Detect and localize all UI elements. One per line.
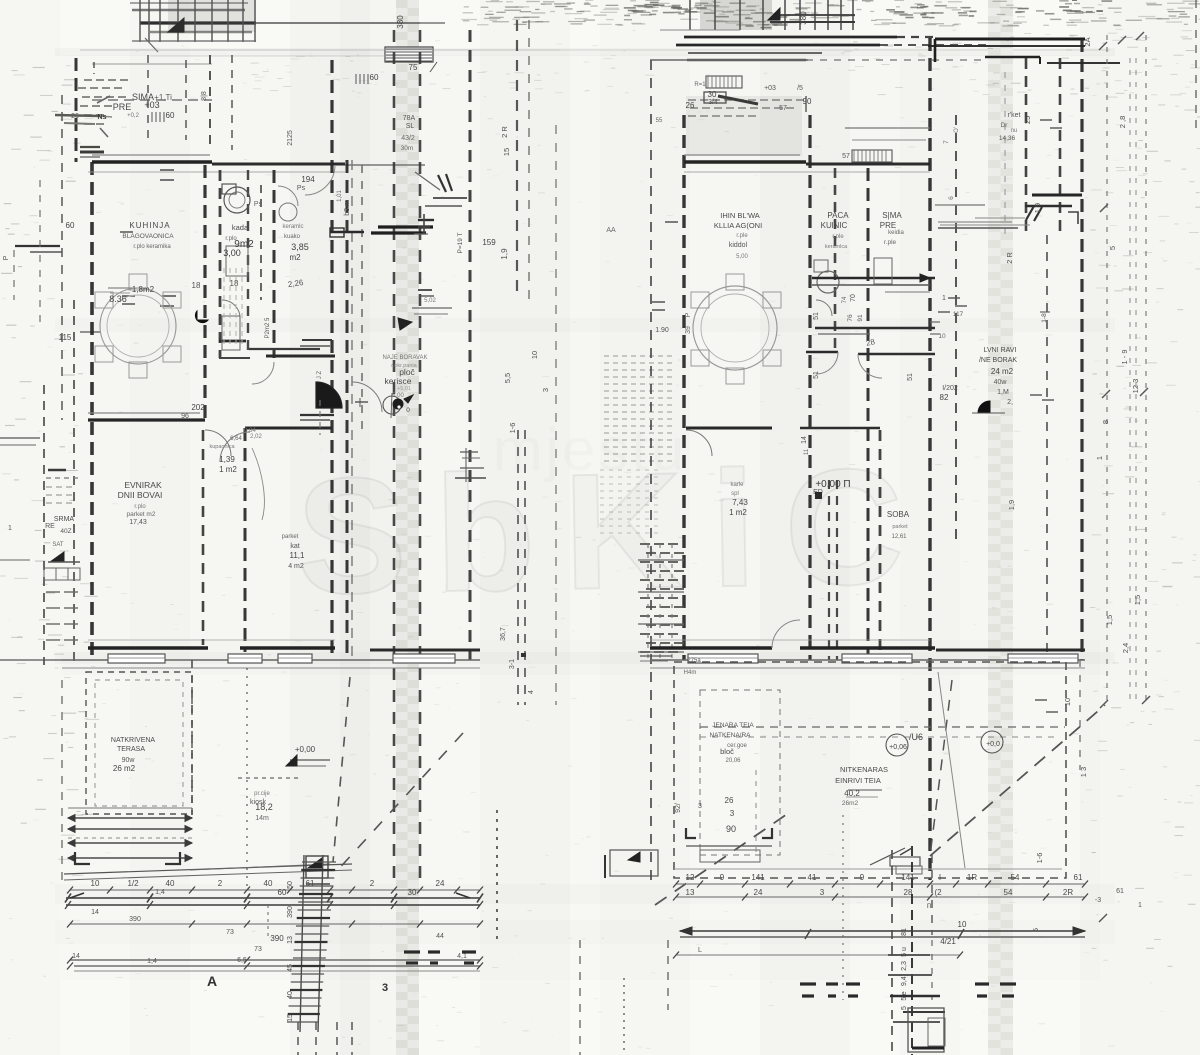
svg-text:24: 24: [754, 888, 763, 897]
svg-text:40w: 40w: [994, 379, 1008, 386]
svg-text:12 3: 12 3: [1131, 379, 1140, 394]
svg-text:1/2: 1/2: [127, 879, 139, 888]
svg-text:mjestu: mjestu: [493, 416, 688, 483]
svg-text:1,8m2: 1,8m2: [132, 285, 155, 294]
svg-text:24 m2: 24 m2: [991, 367, 1014, 376]
svg-text:40: 40: [264, 879, 273, 888]
svg-text:kuako: kuako: [284, 234, 301, 240]
svg-text:+03: +03: [764, 85, 776, 92]
svg-text:15: 15: [287, 1014, 294, 1022]
svg-text:117: 117: [953, 311, 964, 318]
svg-text:73: 73: [226, 929, 234, 936]
svg-text:30m: 30m: [401, 145, 414, 152]
svg-text:5,02: 5,02: [424, 298, 436, 304]
svg-text:4,1: 4,1: [457, 953, 467, 960]
svg-text:A: A: [207, 973, 217, 989]
svg-text:1,01: 1,01: [337, 190, 343, 202]
svg-text:r.ple: r.ple: [832, 234, 844, 240]
svg-text:60: 60: [66, 221, 75, 230]
svg-text:2,3: 2,3: [901, 961, 908, 971]
svg-text:390: 390: [129, 916, 141, 923]
svg-text:61: 61: [1074, 873, 1083, 882]
svg-text:P=19 T: P=19 T: [457, 232, 464, 253]
svg-text:3,85: 3,85: [291, 242, 309, 252]
svg-text:1: 1: [1138, 902, 1142, 909]
svg-text:2125: 2125: [287, 130, 294, 146]
svg-text:KUlNIC: KUlNIC: [821, 221, 848, 230]
svg-text:DNII BOVAI: DNII BOVAI: [118, 490, 163, 500]
svg-text:14: 14: [72, 953, 80, 960]
svg-text:nu: nu: [1011, 128, 1018, 134]
svg-text:60: 60: [370, 73, 379, 82]
svg-text:r.ple: r.ple: [736, 233, 748, 239]
svg-text:keramlc: keramlc: [282, 224, 303, 230]
svg-text:10: 10: [91, 879, 100, 888]
svg-text:90w: 90w: [122, 757, 136, 764]
svg-text:202: 202: [191, 403, 205, 412]
svg-text:3: 3: [382, 982, 388, 994]
svg-text:8: 8: [1101, 420, 1110, 424]
svg-text:r'ket: r'ket: [1007, 112, 1020, 119]
svg-text:H4m: H4m: [684, 670, 697, 676]
svg-text:12: 12: [686, 873, 695, 882]
svg-text:2 R: 2 R: [500, 126, 509, 138]
svg-text:+03: +03: [144, 100, 159, 110]
svg-text:P: P: [3, 255, 10, 260]
svg-text:75: 75: [409, 63, 418, 72]
svg-text:NITKENARAS: NITKENARAS: [840, 765, 888, 774]
svg-text:JENARA TEIA: JENARA TEIA: [712, 722, 754, 729]
svg-text:10: 10: [938, 333, 946, 340]
svg-text:4/21: 4/21: [940, 937, 956, 946]
svg-text:3: 3: [820, 888, 825, 897]
svg-text:14m: 14m: [255, 815, 269, 822]
svg-text:SRMA: SRMA: [54, 516, 75, 523]
svg-text:30: 30: [708, 90, 717, 99]
svg-text:PRE: PRE: [880, 221, 896, 230]
svg-text:6,64: 6,64: [230, 436, 242, 442]
svg-text:P2m2 5: P2m2 5: [265, 317, 271, 338]
svg-text:5: 5: [1031, 928, 1040, 932]
svg-text:390: 390: [270, 934, 284, 943]
svg-text:I/202: I/202: [942, 385, 958, 392]
svg-text:1,9: 1,9: [500, 248, 509, 260]
svg-text:3: 3: [541, 388, 550, 392]
svg-text:1 3: 1 3: [1079, 767, 1088, 777]
svg-text:Ps: Ps: [254, 201, 263, 208]
svg-text:380: 380: [396, 15, 405, 29]
svg-text:NATKENA/RA: NATKENA/RA: [709, 732, 751, 739]
svg-text:61: 61: [1116, 888, 1124, 895]
svg-text:PRE: PRE: [113, 102, 132, 112]
svg-text:10: 10: [958, 920, 967, 929]
svg-text:26: 26: [686, 101, 695, 110]
svg-text:2R: 2R: [1063, 888, 1073, 897]
svg-text:0: 0: [406, 407, 410, 414]
svg-text:96: 96: [181, 413, 189, 420]
svg-text:14,36: 14,36: [999, 135, 1016, 142]
svg-text:40Z: 40Z: [60, 528, 71, 535]
svg-text:115: 115: [59, 333, 72, 342]
svg-text:26m2: 26m2: [842, 800, 859, 807]
svg-text:+0,2: +0,2: [127, 113, 140, 119]
svg-text:J Z: J Z: [317, 371, 323, 380]
svg-text:159: 159: [482, 238, 496, 247]
svg-text:36,7: 36,7: [500, 627, 507, 641]
svg-text:91: 91: [857, 314, 864, 322]
svg-text:44: 44: [436, 933, 444, 940]
svg-text:kerisce: kerisce: [385, 376, 412, 386]
svg-text:81: 81: [901, 928, 908, 936]
svg-text:bloč: bloč: [720, 747, 734, 756]
svg-text:8.36: 8.36: [109, 294, 127, 304]
svg-text:30: 30: [408, 888, 417, 897]
svg-text:26: 26: [725, 796, 734, 805]
svg-text:7: 7: [943, 140, 950, 144]
svg-text:S|MA: S|MA: [882, 211, 902, 220]
svg-text:2,: 2,: [1007, 399, 1013, 406]
svg-text:141: 141: [751, 873, 765, 882]
svg-text:EINRIVI TEIA: EINRIVI TEIA: [835, 776, 881, 785]
svg-text:/NE BORAK: /NE BORAK: [979, 357, 1017, 364]
svg-text:п: п: [927, 901, 931, 910]
svg-text:/5: /5: [797, 85, 803, 92]
svg-text:1,9: 1,9: [1007, 500, 1016, 510]
svg-text:3-1: 3-1: [509, 659, 516, 669]
svg-text:-3: -3: [1095, 897, 1101, 904]
svg-text:13: 13: [287, 936, 294, 944]
svg-text:17,43: 17,43: [129, 519, 147, 526]
svg-text:1 m2: 1 m2: [219, 465, 237, 474]
svg-text:m2: m2: [289, 253, 301, 262]
svg-text:+0,00: +0,00: [295, 745, 316, 754]
svg-text:2 ,8: 2 ,8: [1118, 116, 1127, 129]
svg-text:90: 90: [726, 824, 736, 834]
svg-text:parket m2: parket m2: [127, 511, 156, 518]
svg-text:2: 2: [370, 879, 375, 888]
svg-text:82: 82: [940, 393, 949, 402]
svg-text:3: 3: [698, 803, 702, 810]
svg-text:r.okr.pania: r.okr.pania: [391, 363, 417, 369]
svg-text:10: 10: [1063, 698, 1072, 706]
svg-text:kada: kada: [232, 223, 249, 232]
svg-text:25: 25: [1023, 116, 1032, 124]
svg-text:O': O': [954, 127, 960, 133]
svg-text:kiddol: kiddol: [729, 242, 748, 249]
svg-text:r.plo keramika: r.plo keramika: [133, 244, 171, 250]
svg-text:1: 1: [1095, 456, 1104, 460]
svg-text:TERASA: TERASA: [117, 746, 145, 753]
svg-text:AA: AA: [606, 227, 616, 234]
svg-text:10: 10: [530, 351, 539, 359]
svg-text:1 9: 1 9: [1033, 203, 1042, 213]
svg-text:41: 41: [808, 873, 817, 882]
svg-text:LVNI RAVI: LVNI RAVI: [984, 347, 1017, 354]
svg-text:KLLIA AG(ONI: KLLIA AG(ONI: [714, 221, 762, 230]
svg-text:4: 4: [528, 690, 535, 694]
svg-text:141: 141: [901, 873, 915, 882]
svg-text:1,5: 1,5: [1105, 615, 1114, 625]
svg-text:40: 40: [166, 879, 175, 888]
svg-text:55: 55: [656, 118, 663, 124]
svg-text:SAT: SAT: [52, 542, 64, 548]
svg-text:18: 18: [230, 279, 239, 288]
svg-text:3,00: 3,00: [223, 248, 241, 258]
svg-text:380: 380: [799, 11, 808, 25]
svg-text:1R: 1R: [967, 873, 977, 882]
svg-text:51: 51: [813, 371, 820, 379]
svg-text:2,4: 2,4: [1121, 643, 1130, 653]
svg-text:60: 60: [278, 888, 287, 897]
svg-text:1,39: 1,39: [219, 455, 235, 464]
svg-text:74: 74: [842, 296, 848, 303]
svg-text:40: 40: [287, 991, 294, 999]
svg-text:54: 54: [1004, 888, 1013, 897]
svg-text:+0,0: +0,0: [986, 741, 1000, 748]
svg-text:5,5: 5,5: [503, 373, 512, 383]
svg-text:5: 5: [901, 1006, 908, 1010]
svg-text:70: 70: [850, 294, 857, 302]
svg-text:24: 24: [436, 879, 445, 888]
svg-text:76: 76: [847, 314, 854, 322]
svg-text:P: P: [685, 312, 692, 317]
svg-text:(2: (2: [934, 888, 942, 897]
svg-text:57: 57: [842, 153, 850, 160]
svg-text:92/: 92/: [675, 803, 682, 813]
svg-text:EVNIRAK: EVNIRAK: [124, 480, 162, 490]
svg-text:2A: 2A: [1083, 37, 1092, 46]
svg-text:43/2: 43/2: [401, 135, 415, 142]
svg-text:pr.cije: pr.cije: [254, 791, 270, 797]
svg-text:1,5: 1,5: [1133, 595, 1142, 605]
svg-text:61: 61: [306, 879, 315, 888]
svg-text:I: I: [939, 873, 941, 882]
svg-text:1.90: 1.90: [655, 327, 669, 334]
svg-text:18: 18: [192, 281, 201, 290]
svg-text:6: 6: [948, 196, 955, 200]
svg-text:13: 13: [686, 888, 695, 897]
svg-text:1,M: 1,M: [997, 389, 1009, 396]
svg-text:NATKRIVENA: NATKRIVENA: [111, 737, 156, 744]
svg-text:390: 390: [287, 906, 294, 918]
svg-text:1,4: 1,4: [155, 889, 165, 896]
svg-text:IHIN BL'WA: IHIN BL'WA: [720, 211, 760, 220]
svg-text:1-6: 1-6: [1035, 853, 1044, 864]
svg-text:2,02: 2,02: [250, 434, 262, 440]
svg-text:1 - 9: 1 - 9: [1120, 349, 1129, 364]
svg-text:NAJE BORAVAK: NAJE BORAVAK: [382, 355, 427, 361]
svg-text:51: 51: [907, 373, 914, 381]
svg-text:PACA: PACA: [827, 211, 849, 220]
svg-text:KUHINJA: KUHINJA: [129, 221, 170, 230]
svg-text:/U6: /U6: [909, 732, 923, 742]
svg-text:L: L: [698, 947, 702, 954]
svg-text:20,06: 20,06: [725, 758, 741, 764]
svg-text:r.ple: r.ple: [884, 239, 897, 246]
svg-text:18,2: 18,2: [255, 802, 273, 812]
svg-text:Ps: Ps: [297, 185, 306, 192]
svg-text:b3 m: b3 m: [344, 200, 351, 216]
svg-text:9: 9: [860, 873, 865, 882]
svg-text:60: 60: [166, 111, 175, 120]
svg-text:BLAGOVAONICA: BLAGOVAONICA: [122, 233, 174, 240]
svg-text:3: 3: [730, 809, 735, 818]
svg-text:90: 90: [803, 97, 812, 106]
svg-text:57: 57: [779, 105, 787, 112]
svg-text:R=1: R=1: [694, 82, 706, 88]
svg-text:26 m2: 26 m2: [113, 764, 136, 773]
svg-text:54: 54: [1011, 873, 1020, 882]
svg-text:9: 9: [720, 873, 725, 882]
svg-text:Ns: Ns: [98, 114, 107, 121]
svg-text:73: 73: [254, 946, 262, 953]
svg-text:1-8: 1-8: [1041, 313, 1048, 323]
svg-text:78A: 78A: [403, 115, 416, 122]
svg-text:8|8: 8|8: [201, 91, 208, 101]
svg-text:1: 1: [942, 295, 946, 302]
svg-text:50: 50: [287, 881, 294, 889]
svg-text:45: 45: [287, 964, 294, 972]
svg-text:15: 15: [502, 148, 511, 156]
svg-text:5,00: 5,00: [736, 254, 748, 260]
svg-text:39: 39: [685, 326, 692, 334]
svg-text:275a: 275a: [687, 658, 701, 664]
svg-text:+0,06: +0,06: [889, 744, 907, 751]
svg-text:51: 51: [813, 312, 820, 320]
svg-text:keidia: keidia: [888, 230, 904, 236]
svg-text:5: 5: [1108, 246, 1117, 250]
svg-text:keramlca: keramlca: [825, 244, 848, 250]
svg-text:SL: SL: [406, 123, 415, 130]
svg-text:14: 14: [91, 909, 99, 916]
svg-text:+5,01: +5,01: [397, 386, 411, 392]
svg-text:2: 2: [218, 879, 223, 888]
svg-text:2 R: 2 R: [1005, 252, 1014, 264]
svg-text:1: 1: [8, 525, 12, 532]
svg-text:r.plo: r.plo: [134, 504, 146, 510]
svg-text:Dr: Dr: [1001, 122, 1009, 129]
svg-text:194: 194: [301, 175, 315, 184]
svg-text:1,4: 1,4: [147, 958, 157, 965]
svg-text:RE: RE: [45, 523, 55, 530]
